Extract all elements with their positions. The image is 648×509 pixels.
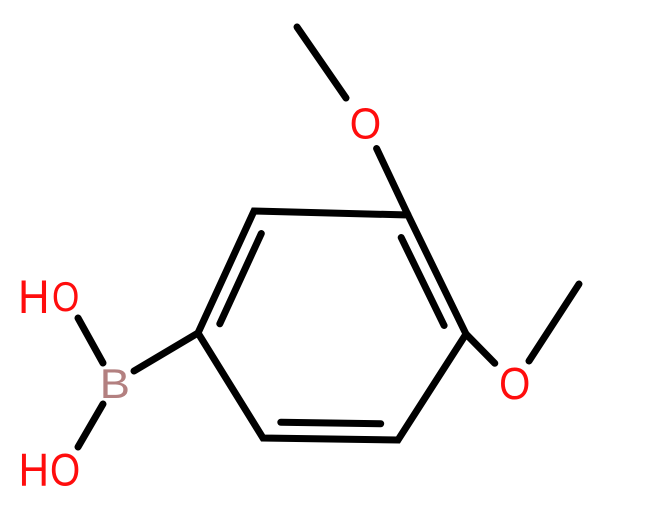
bond O right - CH3 xyxy=(529,284,579,361)
svg-text:H: H xyxy=(19,444,50,496)
bond B-OH bottom xyxy=(78,404,103,447)
svg-text:O: O xyxy=(50,445,80,496)
bond B-C1 xyxy=(134,333,198,371)
svg-text:O: O xyxy=(350,101,381,149)
svg-text:H: H xyxy=(18,271,50,324)
svg-text:B: B xyxy=(100,360,130,407)
bond C4-O right xyxy=(466,334,495,363)
aromatic inner line C1=C2 xyxy=(220,234,261,324)
svg-text:O: O xyxy=(52,273,79,320)
bond O top - CH3 xyxy=(297,27,346,98)
aromatic inner line C5=C6 xyxy=(281,422,381,423)
aromatic inner line C3=C4 xyxy=(401,238,444,326)
bond B-OH top xyxy=(78,318,103,363)
bond C3-O top xyxy=(377,149,408,216)
svg-text:O: O xyxy=(499,358,530,409)
benzene ring (hexagon C1-C6) xyxy=(198,211,466,440)
